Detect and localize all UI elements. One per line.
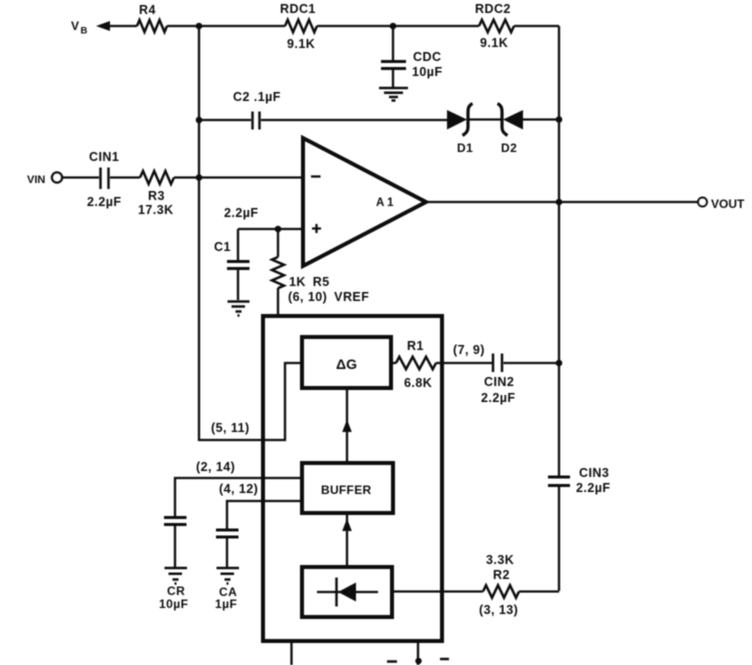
svg-text:9.1K: 9.1K: [480, 36, 508, 50]
svg-text:3.3K: 3.3K: [486, 553, 514, 567]
svg-text:C1: C1: [214, 240, 231, 254]
svg-text:B: B: [81, 26, 88, 37]
svg-text:D2: D2: [501, 141, 517, 155]
svg-text:VOUT: VOUT: [711, 197, 745, 211]
svg-text:(7, 9): (7, 9): [453, 343, 485, 357]
svg-text:R1: R1: [407, 339, 424, 353]
svg-text:2.2µF: 2.2µF: [87, 195, 121, 209]
svg-text:(4, 12): (4, 12): [219, 482, 258, 496]
svg-text:CIN2: CIN2: [484, 375, 514, 389]
svg-text:R2: R2: [493, 568, 510, 582]
svg-text:6.8K: 6.8K: [404, 376, 432, 390]
svg-text:2.2µF: 2.2µF: [481, 391, 515, 405]
svg-text:(6, 10) VREF: (6, 10) VREF: [288, 290, 369, 304]
svg-text:1µF: 1µF: [215, 597, 237, 611]
svg-text:CR: CR: [167, 584, 185, 598]
svg-text:(3, 13): (3, 13): [479, 603, 518, 617]
svg-text:VIN: VIN: [27, 174, 45, 186]
svg-text:BUFFER: BUFFER: [321, 483, 371, 497]
svg-text:2.2µF: 2.2µF: [224, 206, 258, 220]
svg-text:C2 .1µF: C2 .1µF: [233, 90, 281, 104]
svg-text:CIN3: CIN3: [579, 466, 609, 480]
svg-text:D1: D1: [457, 141, 473, 155]
svg-text:1K R5: 1K R5: [289, 275, 330, 289]
svg-text:CIN1: CIN1: [89, 150, 119, 164]
svg-text:10µF: 10µF: [412, 65, 443, 79]
svg-text:V: V: [71, 19, 79, 33]
svg-text:(2, 14): (2, 14): [196, 460, 235, 474]
svg-text:R4: R4: [139, 3, 156, 17]
svg-text:9.1K: 9.1K: [287, 37, 315, 51]
svg-text:RDC2: RDC2: [475, 2, 511, 16]
svg-text:A 1: A 1: [376, 197, 394, 209]
svg-text:ΔG: ΔG: [336, 356, 357, 372]
svg-text:CDC: CDC: [413, 50, 441, 64]
svg-text:10µF: 10µF: [159, 597, 188, 611]
svg-text:R3: R3: [148, 189, 165, 203]
svg-text:(5, 11): (5, 11): [211, 421, 250, 435]
svg-text:2.2µF: 2.2µF: [576, 481, 610, 495]
svg-text:RDC1: RDC1: [280, 2, 316, 16]
svg-text:17.3K: 17.3K: [138, 203, 174, 217]
